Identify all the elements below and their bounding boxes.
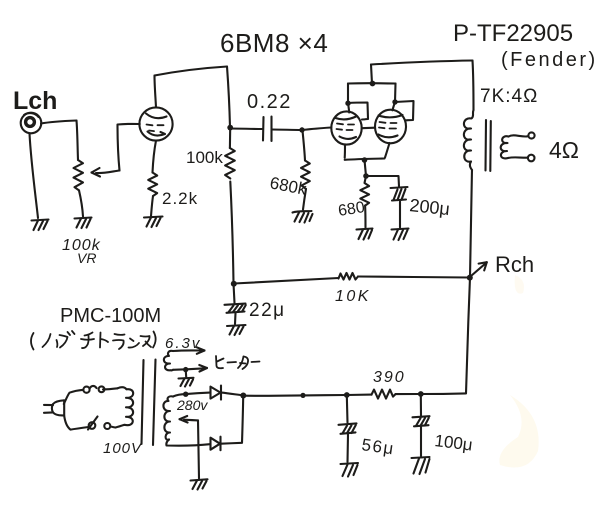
arrow Rch <box>470 262 487 277</box>
svg-text:P-TF22905: P-TF22905 <box>453 20 573 47</box>
ground jack <box>32 220 49 231</box>
node plate rail junction dot <box>370 81 376 87</box>
pentode V2 grid dashes <box>337 124 355 131</box>
svg-text:280v: 280v <box>176 397 208 413</box>
transformer T1 HV winding 280V <box>163 396 173 440</box>
wire 200u to ground <box>399 202 401 228</box>
label heater katakana hi <box>216 356 224 368</box>
wire V2 cathode drop <box>344 145 346 158</box>
capacitor C4 56u plates <box>339 423 357 433</box>
wire 100k down to B+ node <box>230 182 233 284</box>
node HV top dot <box>183 392 188 397</box>
switch bottom pole circle B <box>89 422 96 429</box>
label heater katakana ta <box>238 357 248 370</box>
wire bus to 56u node <box>303 394 347 396</box>
node B+ first stage dot <box>231 281 237 287</box>
wire bus to 390 <box>347 394 372 396</box>
wire cathode bus <box>345 159 385 160</box>
label noguchi-trans closing paren <box>153 332 156 348</box>
wire riser to top rail <box>371 65 372 84</box>
resistor 680 body <box>360 176 369 206</box>
ground heater <box>179 378 194 387</box>
smudge <box>499 395 538 468</box>
switch bottom lever slash <box>88 417 98 430</box>
ground 56u <box>341 463 359 477</box>
label noguchi-trans opening paren <box>31 333 34 350</box>
node cathode bus dot <box>362 157 368 163</box>
svg-text:22μ: 22μ <box>249 300 286 321</box>
node Rch junction dot <box>467 275 473 281</box>
wire 10K to Rch node <box>358 277 469 278</box>
wire 22u to ground <box>234 313 237 324</box>
wire plate node to coupling cap <box>231 127 263 130</box>
arrow HV center tap <box>180 416 199 423</box>
wire heater bottom lead arrow <box>173 365 207 372</box>
svg-text:6BM8 ×4: 6BM8 ×4 <box>220 28 328 58</box>
label heater dash 2 <box>252 361 260 364</box>
pentode V3 envelope <box>375 110 406 144</box>
wire plate rail over output tubes <box>348 82 396 84</box>
svg-text:7K:4Ω: 7K:4Ω <box>480 86 538 107</box>
wire down to plate node <box>227 67 230 128</box>
wire grid bus between V2 and V3 <box>362 127 375 130</box>
wire V3 screen hook <box>395 101 414 120</box>
pentode V2 plate <box>336 117 357 120</box>
wire 100u to ground <box>420 427 422 456</box>
pentode V3 cathode <box>379 135 398 138</box>
svg-text:10K: 10K <box>335 288 371 305</box>
wire 56u to ground <box>346 435 349 463</box>
wire V3 plate drop <box>394 84 397 103</box>
wire B+ node to 10K <box>234 278 339 284</box>
svg-text:Rch: Rch <box>495 252 534 277</box>
switch top arc <box>90 386 97 388</box>
kana su <box>141 336 152 347</box>
wire jack to grid corner <box>41 121 77 124</box>
capacitor C3 200u plates <box>391 187 408 201</box>
resistor 390 body <box>372 390 396 399</box>
svg-text:PMC-100M: PMC-100M <box>60 305 161 327</box>
wire switch to primary <box>103 388 118 389</box>
kana no <box>43 334 51 347</box>
wire D2 up to rectifier node <box>221 396 243 444</box>
pentode V3 grid dashes <box>379 122 397 129</box>
node 100u dot <box>418 391 424 397</box>
transformer T2 core <box>486 120 491 171</box>
kana to <box>100 333 108 348</box>
kana chi <box>81 333 94 349</box>
resistor 100k body <box>225 148 235 179</box>
resistor 10K body <box>339 273 359 280</box>
wire VR bottom to ground <box>79 190 83 216</box>
switch top pole circle A <box>83 387 89 393</box>
wire grid node down to 680k <box>303 131 306 161</box>
wire V2 plate drop <box>347 84 349 104</box>
triode V1 cathode <box>148 132 166 136</box>
wire rail down to B+ bus <box>466 278 470 394</box>
node V2 plate dot <box>345 101 350 106</box>
wire heater top lead arrow <box>173 347 205 354</box>
switch top pole circle B <box>99 386 105 392</box>
VR wiper arrow <box>92 168 120 177</box>
ground HV center tap <box>191 479 208 489</box>
kana gu <box>57 331 75 348</box>
node plate V1 junction dot <box>227 125 233 131</box>
wire HV top lead <box>173 394 186 396</box>
node rectifier output dot <box>240 393 246 399</box>
ground 2.2k <box>144 217 163 228</box>
plug P1 body <box>44 400 64 415</box>
wire V1 plate up <box>155 76 157 108</box>
wire cap to grid node <box>272 128 302 131</box>
node V3 plate dot <box>392 99 397 104</box>
node bus dot 1 <box>300 393 305 398</box>
wire OT rail down to Rch node <box>470 170 472 277</box>
ground 100u <box>412 457 430 474</box>
wire plug to switch top <box>64 390 84 404</box>
wire bus to right rail <box>421 392 466 395</box>
svg-text:2.2k: 2.2k <box>162 189 198 208</box>
transformer T1 heater winding 6.3V <box>164 351 173 371</box>
resistor 680k body <box>301 161 310 189</box>
wire 680 to ground <box>364 206 366 228</box>
potentiometer VR1 100k body <box>74 160 84 190</box>
svg-text:390: 390 <box>373 369 406 386</box>
wire B+ node to 22u <box>234 284 235 304</box>
wire top rail down to primary <box>473 61 474 111</box>
svg-text:100V: 100V <box>103 440 143 457</box>
svg-text:0.22: 0.22 <box>247 91 292 113</box>
switch bottom pole circle A <box>104 423 110 429</box>
ground 200u <box>392 229 409 241</box>
node heater CT dot <box>183 367 188 372</box>
svg-text:100k: 100k <box>186 148 223 167</box>
capacitor C1 0.22 plates <box>263 117 272 142</box>
wire D1 to B+ node <box>222 393 243 396</box>
wire plate top run right <box>155 67 228 76</box>
wire 2.2k to ground <box>151 196 153 216</box>
wire primary bottom to switch <box>111 427 116 428</box>
transformer T1 core <box>142 360 156 446</box>
diode D2 <box>211 437 221 451</box>
wire top rail to transformer <box>371 61 473 65</box>
capacitor C5 100u plates <box>413 416 430 426</box>
wire 100u drop <box>420 394 422 416</box>
ground 22u <box>227 325 246 335</box>
wire jack sleeve to ground <box>30 134 39 219</box>
ground 680 <box>357 229 373 240</box>
svg-text:4Ω: 4Ω <box>549 137 579 163</box>
resistor 2.2k <box>148 173 157 196</box>
wire HV top to D1 <box>186 393 210 395</box>
wire to 200u <box>366 176 399 187</box>
wire into V2 top <box>348 103 349 113</box>
wire V3 cathode drop <box>385 143 390 158</box>
terminal speaker top <box>528 132 534 138</box>
svg-text:VR: VR <box>77 250 96 266</box>
node cathode filter dot <box>363 173 369 179</box>
input jack J1 Lch <box>21 113 42 134</box>
svg-text:200μ: 200μ <box>409 195 451 219</box>
node grid junction dot <box>299 127 304 132</box>
wire secondary bottom lead <box>508 156 527 159</box>
wire center tap to ground <box>198 420 199 478</box>
wire plate node down to 100k <box>229 128 231 148</box>
triode V1 plate <box>146 114 167 119</box>
transformer T1 primary winding <box>116 387 134 427</box>
wire switch bottom to plug <box>64 416 88 430</box>
wire V2 screen hook <box>349 103 369 120</box>
wire into V3 top <box>393 102 396 110</box>
label noguchi-trans (Noguchi Trans) <box>31 331 156 350</box>
svg-text:(Fender): (Fender) <box>501 49 598 71</box>
label heater dash 1 <box>228 361 237 364</box>
terminal speaker bottom <box>528 155 535 162</box>
wire heater CT to ground <box>185 370 188 377</box>
wire B+ bus left <box>243 394 303 396</box>
ground 680k <box>293 211 313 223</box>
wire V1 cathode down <box>153 141 157 173</box>
node 56u dot <box>344 392 350 398</box>
wire 680k to ground <box>303 189 306 210</box>
pentode V2 cathode <box>340 137 357 139</box>
wire HV bottom lead <box>166 440 209 446</box>
svg-text:Lch: Lch <box>13 87 57 115</box>
wire grid node to V2 grid <box>302 128 331 131</box>
wire wiper riser to grid of V1 <box>118 124 140 171</box>
ground VR1 <box>75 218 92 229</box>
capacitor C2 22u plates <box>225 304 246 313</box>
pentode V2 envelope <box>331 111 361 144</box>
wire 390 to 100u node <box>396 393 421 395</box>
wire cathode node down <box>365 160 367 176</box>
wire secondary top lead <box>509 135 528 136</box>
pentode V3 plate <box>379 115 403 117</box>
wire 56u drop <box>346 395 349 423</box>
triode V1 envelope <box>139 107 172 140</box>
transformer T2 primary winding <box>464 110 474 170</box>
wire corner down to VR top <box>77 121 79 161</box>
kana n <box>129 339 140 348</box>
triode V1 grid dashes <box>147 125 164 132</box>
diode D1 <box>211 386 222 400</box>
kana ra <box>113 334 125 349</box>
transformer T2 secondary winding <box>501 136 509 158</box>
